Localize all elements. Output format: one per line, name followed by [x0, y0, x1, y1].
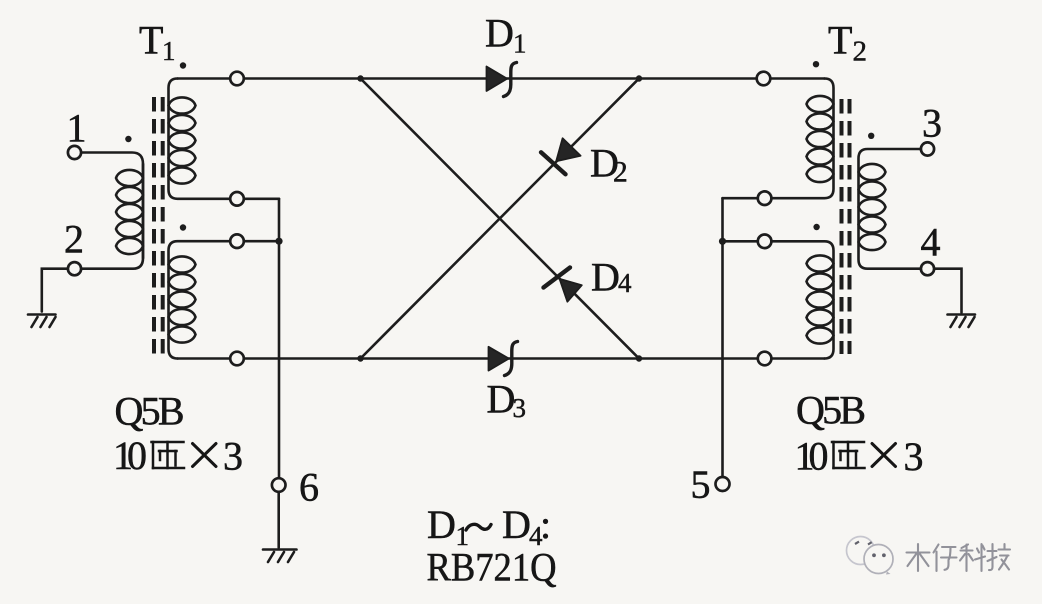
svg-text:D: D [485, 11, 514, 56]
svg-text:1: 1 [67, 106, 87, 151]
svg-text:4: 4 [921, 220, 941, 265]
svg-text:2: 2 [613, 157, 628, 189]
svg-text:D: D [502, 502, 531, 547]
svg-text:T: T [139, 18, 163, 63]
svg-text:1: 1 [456, 521, 470, 551]
svg-text:2: 2 [64, 217, 84, 262]
svg-text:RB721Q: RB721Q [427, 545, 557, 590]
svg-text:Q5B: Q5B [115, 389, 185, 434]
svg-text:Q5B: Q5B [796, 388, 866, 433]
svg-text:10: 10 [113, 433, 147, 478]
svg-text:D: D [487, 377, 516, 422]
svg-text:D: D [591, 255, 620, 300]
svg-text:5: 5 [691, 462, 711, 507]
svg-text:4: 4 [529, 521, 543, 551]
svg-text:3: 3 [922, 101, 942, 146]
svg-text:1: 1 [162, 36, 176, 66]
svg-text:D: D [427, 502, 456, 547]
svg-text:3: 3 [223, 434, 243, 479]
svg-text:1: 1 [513, 29, 527, 59]
svg-text:2: 2 [853, 36, 868, 68]
svg-text:10: 10 [795, 434, 829, 479]
svg-text:T: T [828, 18, 852, 63]
svg-text:4: 4 [618, 268, 632, 298]
svg-text:6: 6 [299, 465, 319, 510]
svg-text:3: 3 [904, 434, 924, 479]
svg-text:3: 3 [513, 393, 527, 423]
